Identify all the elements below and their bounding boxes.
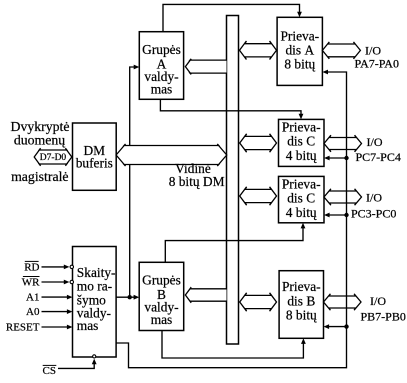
svg-text:mas: mas <box>77 318 99 333</box>
svg-text:A1: A1 <box>26 292 39 304</box>
svg-text:Prieva-: Prieva- <box>282 120 321 135</box>
svg-text:I/O: I/O <box>367 135 383 149</box>
block U7: Prievadis C 4 bitu lower (PC3-PC0) <box>279 176 325 222</box>
svg-text:RD: RD <box>24 262 39 274</box>
label: Dvykrypte duomenu magistrale (bidirectional data bus) <box>10 119 69 184</box>
svg-text:magistralė: magistralė <box>11 169 68 184</box>
bus arrow: internal bus to Prievadis C upper <box>240 134 277 152</box>
bus arrow: internal bus to Prievadis C lower <box>240 187 277 205</box>
junction and control arrow into Prievadis B right edge <box>324 324 349 329</box>
svg-text:A0: A0 <box>26 306 40 318</box>
block U6: Prievadis C 4 bitu upper (PC7-PC4) <box>279 119 325 166</box>
input signal RD (read, active low) <box>24 261 73 273</box>
svg-text:I/O: I/O <box>365 44 381 58</box>
block U1: DM buferis (data bus buffer) <box>73 123 117 190</box>
svg-text:Prieva-: Prieva- <box>280 29 319 44</box>
svg-text:mas: mas <box>151 81 173 96</box>
svg-text:dis A: dis A <box>285 42 314 57</box>
svg-text:PC3-PC0: PC3-PC0 <box>351 207 396 221</box>
wide arrow: internal bus to Grupes A valdymas <box>185 59 226 75</box>
input signal A1 (address bit 1) <box>26 292 72 304</box>
svg-text:Prieva-: Prieva- <box>282 279 321 294</box>
svg-text:I/O: I/O <box>370 294 386 308</box>
svg-text:dis C: dis C <box>287 134 315 149</box>
svg-text:dis C: dis C <box>287 191 315 206</box>
svg-text:buferis: buferis <box>76 155 113 170</box>
I/O double arrow of Prievadis A <box>322 42 360 59</box>
wire: read/write control up to Grupes A valdymas, junction at Grupes B wire <box>128 65 140 300</box>
input signal WR (write, active low) <box>22 277 74 289</box>
bus arrow: DM buferis to internal bus (wide double arrow) <box>116 144 227 166</box>
svg-text:8 bitų DM: 8 bitų DM <box>169 174 225 189</box>
I/O double arrow of Prievadis B <box>324 294 362 310</box>
svg-text:D7-D0: D7-D0 <box>40 153 67 163</box>
bus symbol: D7-D0 external data bus double arrow <box>34 148 72 166</box>
input signal RESET <box>6 322 73 334</box>
label: I/O PC3-PC0 <box>351 190 396 220</box>
internal data bus rail (Vidine 8 bitu DM) <box>227 16 239 345</box>
svg-text:4 bitų: 4 bitų <box>286 148 317 163</box>
svg-text:WR: WR <box>22 277 40 289</box>
input signal CS (chip select, active low) <box>43 355 97 377</box>
bus arrow: internal bus to Prievadis A <box>240 41 277 60</box>
svg-text:Grupės: Grupės <box>142 42 181 57</box>
input signal A0 (address bit 0) <box>26 306 72 318</box>
wire: Skaitymo valdymas right-side control trunk to Prievadis A <box>116 70 346 368</box>
wide arrow: internal bus to Grupes B valdymas <box>185 287 226 303</box>
wire: Skaitymo rasymo valdymas to Grupes B valdymas <box>116 295 139 300</box>
block U2: Grupes A valdymas (group A control) <box>139 32 183 100</box>
svg-text:dis B: dis B <box>287 293 315 308</box>
I/O double arrow of Prievadis C upper <box>324 135 362 152</box>
block U3: Grupes B valdymas (group B control) <box>139 262 184 330</box>
svg-text:8 bitų: 8 bitų <box>286 307 317 322</box>
svg-text:8 bitų: 8 bitų <box>284 57 315 72</box>
svg-text:4 bitų: 4 bitų <box>286 205 317 220</box>
block U8: Prievadis B 8 bitu (port B) <box>279 271 323 339</box>
wire: Grupes A valdymas bottom to Prievadis C upper top <box>160 99 303 119</box>
svg-text:Grupės: Grupės <box>142 273 181 288</box>
junction and control arrow into Prievadis C lower right edge <box>324 213 349 218</box>
junction and control arrow into Prievadis C upper right edge <box>324 156 349 161</box>
svg-text:mas: mas <box>151 312 173 327</box>
svg-text:duomenų: duomenų <box>14 132 65 147</box>
svg-text:PC7-PC4: PC7-PC4 <box>356 150 401 164</box>
svg-text:PA7-PA0: PA7-PA0 <box>355 57 399 71</box>
block U4: Skaitymo rasymo valdymas (read/write control) <box>73 247 117 358</box>
I/O double arrow of Prievadis C lower <box>324 189 362 205</box>
wire: Grupes B valdymas top to Prievadis C lower bottom <box>165 223 305 262</box>
svg-text:Prieva-: Prieva- <box>282 177 321 192</box>
svg-text:RESET: RESET <box>6 322 40 334</box>
wire: Grupes B valdymas bottom to Prievadis B bottom <box>162 331 306 359</box>
label: I/O PA7-PA0 <box>355 44 399 71</box>
svg-text:I/O: I/O <box>366 190 382 204</box>
label: I/O PB7-PB0 <box>361 294 406 323</box>
label: Vidine 8 bitu DM <box>169 161 225 189</box>
svg-text:PB7-PB0: PB7-PB0 <box>361 309 406 323</box>
block U5: Prievadis A 8 bitu (port A) <box>277 17 322 85</box>
svg-text:CS: CS <box>43 365 56 377</box>
wire: Grupes A valdymas top to Prievadis A top <box>163 4 302 31</box>
label: I/O PC7-PC4 <box>356 135 401 164</box>
bus arrow: internal bus to Prievadis B <box>240 293 277 311</box>
